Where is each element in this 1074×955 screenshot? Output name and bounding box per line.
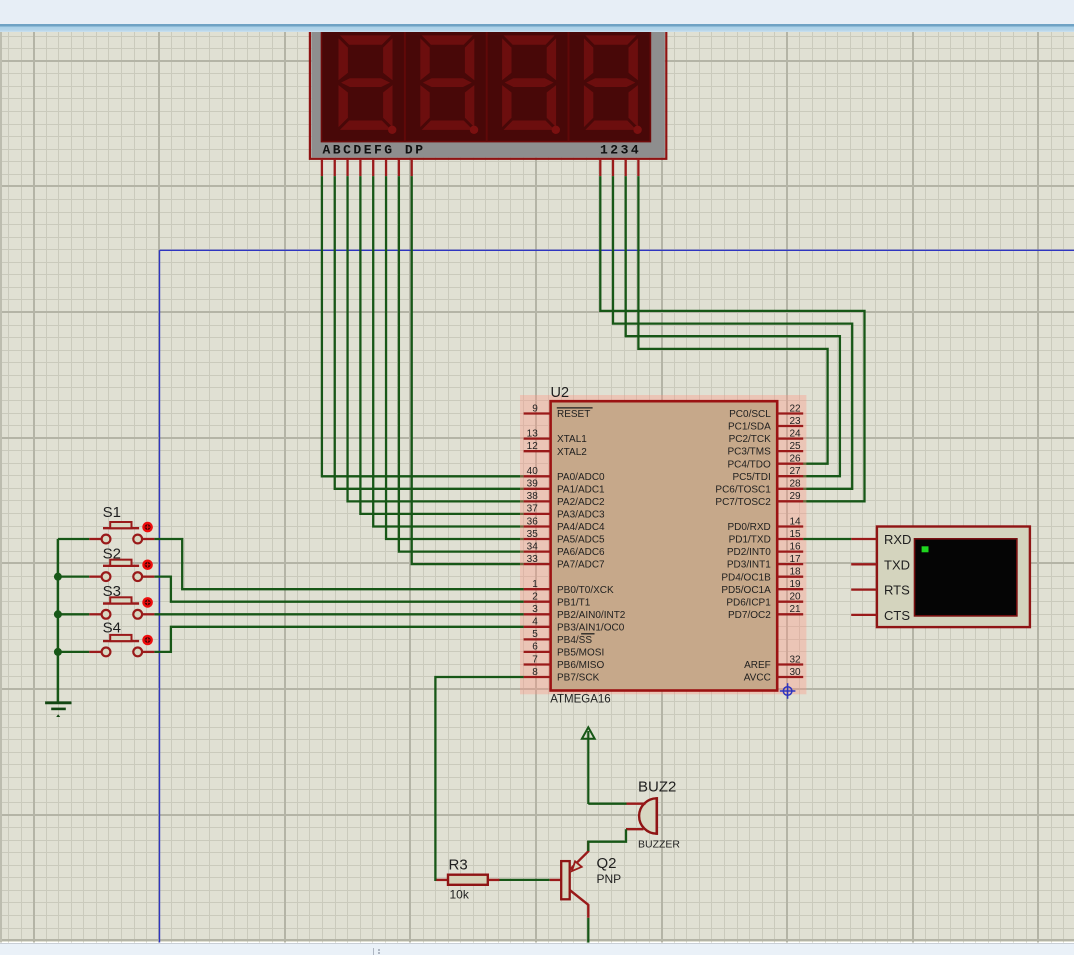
svg-text:12: 12: [527, 441, 539, 452]
pin 23 PC1/SDA (right): [728, 416, 803, 433]
svg-text:18: 18: [790, 567, 802, 578]
svg-text:40: 40: [527, 466, 539, 477]
wire R3 to Q2 base: [500, 879, 550, 881]
pin 4 PB3/AIN1/OC0 (left): [524, 617, 625, 634]
svg-text:26: 26: [790, 454, 802, 465]
svg-text:CTS: CTS: [884, 608, 910, 623]
pin 33 PA7/ADC7 (left): [524, 554, 605, 571]
virtual terminal body: [877, 527, 1030, 628]
pin 34 PA6/ADC6 (left): [524, 541, 605, 558]
svg-text:20: 20: [790, 592, 802, 603]
terminal pin CTS: [851, 608, 910, 623]
svg-text:PC4/TDO: PC4/TDO: [727, 459, 771, 470]
wire S3 to PB2: [154, 613, 523, 615]
svg-text:Q2: Q2: [597, 855, 617, 872]
display pins 1-4 stubs: [600, 159, 638, 176]
svg-text:PC1/SDA: PC1/SDA: [728, 422, 771, 433]
wire display C to PA2: [348, 176, 524, 501]
svg-text:27: 27: [790, 466, 802, 477]
svg-text:PD2/INT0: PD2/INT0: [727, 547, 771, 558]
svg-text:23: 23: [790, 416, 802, 427]
svg-text:36: 36: [527, 516, 539, 527]
S3 interactive marker: [142, 597, 153, 608]
svg-text:RTS: RTS: [884, 583, 910, 598]
wire display DP to PA7: [412, 176, 524, 564]
svg-text:PNP: PNP: [597, 872, 622, 886]
wire display D to PA3: [360, 176, 523, 514]
svg-text:PA4/ADC4: PA4/ADC4: [557, 522, 605, 533]
terminal pin RXD: [851, 532, 911, 547]
pin 20 PD6/ICP1 (right): [726, 592, 803, 609]
svg-text:PB6/MISO: PB6/MISO: [557, 660, 604, 671]
svg-text:PC6/TOSC1: PC6/TOSC1: [715, 484, 771, 495]
svg-text:PC0/SCL: PC0/SCL: [729, 409, 771, 420]
pin 14 PD0/RXD (right): [727, 516, 803, 533]
svg-text:8: 8: [532, 667, 538, 678]
7-seg digit 2: [420, 35, 474, 129]
wire display digit 3 to PC5: [626, 176, 840, 476]
pin 5 PB4/SS (left): [524, 629, 595, 646]
svg-text:XTAL2: XTAL2: [557, 447, 587, 458]
pin 2 PB1/T1 (left): [524, 592, 591, 609]
pin 32 AREF (right): [744, 654, 803, 671]
svg-text:PD4/OC1B: PD4/OC1B: [721, 572, 771, 583]
junction S4: [54, 648, 62, 656]
svg-text:37: 37: [527, 504, 539, 515]
pin 27 PC5/TDI (right): [732, 466, 803, 483]
svg-text:PA0/ADC0: PA0/ADC0: [557, 472, 605, 483]
svg-text:10k: 10k: [450, 887, 470, 901]
pin 22 PC0/SCL (right): [729, 403, 803, 420]
svg-text:16: 16: [790, 541, 802, 552]
pin 16 PD2/INT0 (right): [727, 541, 803, 558]
pin 38 PA2/ADC2 (left): [524, 491, 605, 508]
svg-text:1: 1: [532, 579, 538, 590]
svg-text:9: 9: [532, 403, 538, 414]
resistor R3: [436, 875, 499, 885]
svg-text:30: 30: [790, 667, 802, 678]
wire S2 left to bus: [58, 576, 89, 578]
pin 18 PD4/OC1B (right): [721, 567, 803, 584]
svg-text:BUZZER: BUZZER: [638, 838, 680, 850]
pin 9 RESET (left): [524, 403, 593, 420]
pin 19 PD5/OC1A (right): [721, 579, 803, 596]
7-seg digit 3: [502, 35, 556, 129]
svg-text:PB1/T1: PB1/T1: [557, 597, 591, 608]
switch S3: [89, 597, 154, 618]
pin 37 PA3/ADC3 (left): [524, 504, 605, 521]
sheet border left edge: [159, 250, 161, 942]
svg-text:19: 19: [790, 579, 802, 590]
svg-text:PB4/SS: PB4/SS: [557, 635, 592, 646]
terminal pin RTS: [851, 583, 910, 598]
display pins A-DP stubs: [322, 159, 412, 176]
svg-text:13: 13: [527, 428, 539, 439]
pin 30 AVCC (right): [744, 667, 803, 684]
svg-text:17: 17: [790, 554, 802, 565]
svg-text:34: 34: [527, 541, 539, 552]
pin 29 PC7/TOSC2 (right): [715, 491, 803, 508]
svg-text:14: 14: [790, 516, 802, 527]
pin 1 PB0/T0/XCK (left): [524, 579, 614, 596]
pin 8 PB7/SCK (left): [524, 667, 600, 684]
wire S4 to PB3: [154, 627, 523, 652]
svg-text:PC3/TMS: PC3/TMS: [727, 447, 771, 458]
svg-text:32: 32: [790, 654, 802, 665]
wire display E to PA4: [373, 176, 523, 526]
svg-text:AVCC: AVCC: [744, 673, 771, 684]
wire buzzer - to Q2 emitter: [588, 829, 626, 851]
svg-text:PB2/AIN0/INT2: PB2/AIN0/INT2: [557, 610, 626, 621]
svg-text:PD5/OC1A: PD5/OC1A: [721, 585, 771, 596]
svg-text:7: 7: [532, 654, 538, 665]
digit separators: [405, 26, 569, 142]
S4 interactive marker: [142, 635, 153, 646]
S1 interactive marker: [142, 522, 153, 533]
svg-text:6: 6: [532, 642, 538, 653]
svg-text:PA6/ADC6: PA6/ADC6: [557, 547, 605, 558]
wire display F to PA5: [386, 176, 524, 539]
svg-text:PD6/ICP1: PD6/ICP1: [726, 597, 771, 608]
wire S1 left to bus: [58, 538, 89, 540]
svg-text:BUZ2: BUZ2: [638, 779, 676, 796]
svg-text:PA3/ADC3: PA3/ADC3: [557, 510, 605, 521]
pin 39 PA1/ADC1 (left): [524, 479, 605, 496]
svg-text:PC2/TCK: PC2/TCK: [729, 434, 772, 445]
window bottom strip: [0, 943, 1074, 955]
wire display A to PA0: [322, 176, 524, 476]
svg-text:PB3/AIN1/OC0: PB3/AIN1/OC0: [557, 622, 625, 633]
svg-text:1234: 1234: [600, 142, 641, 157]
wire S4 left to bus: [58, 651, 89, 653]
switch S1: [89, 522, 154, 543]
pin 21 PD7/OC2 (right): [728, 604, 803, 621]
svg-text:25: 25: [790, 441, 802, 452]
svg-text:PD3/INT1: PD3/INT1: [727, 560, 771, 571]
svg-text:29: 29: [790, 491, 802, 502]
svg-text:PD7/OC2: PD7/OC2: [728, 610, 771, 621]
wire S2 to PB1: [154, 577, 523, 602]
svg-text:PA2/ADC2: PA2/ADC2: [557, 497, 605, 508]
svg-text:S2: S2: [103, 546, 121, 563]
svg-text:4: 4: [532, 617, 538, 628]
pin 24 PC2/TCK (right): [729, 428, 804, 445]
svg-text:22: 22: [790, 403, 802, 414]
svg-text:TXD: TXD: [884, 557, 910, 572]
svg-text:2: 2: [532, 592, 538, 603]
svg-text:39: 39: [527, 479, 539, 490]
svg-text:PB7/SCK: PB7/SCK: [557, 673, 600, 684]
wire S3 left to bus: [58, 613, 89, 615]
buzzer BUZ2: [626, 797, 657, 835]
svg-text:PD1/TXD: PD1/TXD: [729, 535, 771, 546]
pin 3 PB2/AIN0/INT2 (left): [524, 604, 626, 621]
pin 15 PD1/TXD (right): [729, 529, 804, 546]
svg-text:5: 5: [532, 629, 538, 640]
wire Q2 collector down: [587, 918, 589, 943]
svg-text:S4: S4: [103, 620, 121, 637]
switch S4: [89, 635, 154, 656]
svg-text:PB0/T0/XCK: PB0/T0/XCK: [557, 585, 614, 596]
ground bus wire: [57, 539, 60, 702]
7-segment display LED1 outer border: [310, 24, 666, 159]
wire VCC to buzzer +: [588, 803, 626, 805]
pin 17 PD3/INT1 (right): [727, 554, 803, 571]
S2 interactive marker: [142, 559, 153, 570]
svg-text:21: 21: [790, 604, 802, 615]
svg-text:PA7/ADC7: PA7/ADC7: [557, 560, 605, 571]
svg-text:PA1/ADC1: PA1/ADC1: [557, 484, 605, 495]
wire display digit 2 to PC6: [613, 176, 852, 489]
U1 highlight halo: [520, 395, 806, 694]
op-amp? no: IC body U2 ATMEGA16: [551, 401, 778, 690]
svg-text:3: 3: [532, 604, 538, 615]
svg-text:PA5/ADC5: PA5/ADC5: [557, 535, 605, 546]
svg-text:33: 33: [527, 554, 539, 565]
svg-text:PC5/TDI: PC5/TDI: [732, 472, 770, 483]
ground symbol: [45, 703, 71, 717]
wire S1 to PB0: [154, 539, 523, 589]
power symbol VCC arrow: [582, 727, 595, 804]
svg-text:S1: S1: [103, 504, 121, 521]
svg-text:U2: U2: [551, 385, 570, 401]
terminal screen: [915, 539, 1017, 616]
svg-text:RXD: RXD: [884, 532, 911, 547]
pin 26 PC4/TDO (right): [727, 454, 803, 471]
svg-text:35: 35: [527, 529, 539, 540]
pin 6 PB5/MOSI (left): [524, 642, 605, 659]
svg-text:ABCDEFG DP: ABCDEFG DP: [323, 142, 426, 157]
window top band: [0, 0, 1074, 32]
7-segment display dark panel: [322, 26, 651, 142]
svg-text:PD0/RXD: PD0/RXD: [727, 522, 770, 533]
wire display G to PA6: [399, 176, 524, 551]
pin 13 XTAL1 (left): [524, 428, 588, 445]
svg-text:RESET: RESET: [557, 409, 590, 420]
pin 36 PA4/ADC4 (left): [524, 516, 605, 533]
pin 7 PB6/MISO (left): [524, 654, 605, 671]
7-segment display grey frame: [311, 25, 665, 158]
pin 28 PC6/TOSC1 (right): [715, 479, 803, 496]
junction S2: [54, 573, 62, 581]
7-seg digit 4: [584, 35, 638, 129]
wire PD1/TXD to terminal RXD: [803, 538, 851, 540]
svg-text:ATMEGA16: ATMEGA16: [550, 694, 611, 706]
pin 25 PC3/TMS (right): [727, 441, 803, 458]
wire display digit 4 to PC4: [638, 176, 827, 464]
switch S2: [89, 560, 154, 581]
svg-text:AREF: AREF: [744, 660, 771, 671]
svg-text:38: 38: [527, 491, 539, 502]
svg-text:S3: S3: [103, 583, 121, 600]
svg-text:XTAL1: XTAL1: [557, 434, 587, 445]
svg-text:PB5/MOSI: PB5/MOSI: [557, 648, 604, 659]
sheet border top edge: [160, 249, 1074, 251]
wire display digit 1 to PC7: [600, 176, 864, 501]
terminal pin TXD: [851, 557, 910, 572]
junction S3: [54, 610, 62, 618]
svg-text:PC7/TOSC2: PC7/TOSC2: [715, 497, 771, 508]
transistor Q2 PNP: [550, 841, 589, 918]
svg-text:R3: R3: [449, 857, 468, 874]
pin 35 PA5/ADC5 (left): [524, 529, 605, 546]
wire PB7 to R3: [435, 677, 523, 880]
terminal cursor: [922, 546, 929, 552]
svg-text:28: 28: [790, 479, 802, 490]
svg-text:24: 24: [790, 428, 802, 439]
pin 40 PA0/ADC0 (left): [524, 466, 605, 483]
wire display B to PA1: [335, 176, 524, 489]
U2 origin crosshair: [780, 683, 796, 699]
pin 12 XTAL2 (left): [524, 441, 588, 458]
svg-text:15: 15: [790, 529, 802, 540]
